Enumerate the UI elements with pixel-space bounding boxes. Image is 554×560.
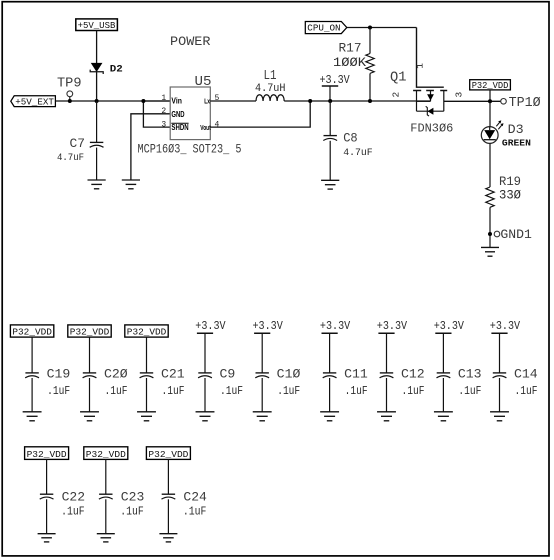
power symbol +3.3V — [197, 332, 213, 334]
svg-text:.1uF: .1uF — [220, 384, 243, 398]
svg-text:+5V_EXT: +5V_EXT — [15, 96, 54, 107]
wire +5V rail — [55, 100, 170, 102]
wire — [31, 337, 33, 373]
svg-text:4.7uH: 4.7uH — [255, 83, 286, 95]
capacitor C23 — [99, 494, 113, 499]
power port P32_VDD — [84, 447, 128, 460]
transistor Q1 body arrow — [427, 91, 434, 102]
wire — [442, 333, 444, 373]
svg-text:.1uF: .1uF — [402, 384, 425, 398]
wire — [442, 378, 444, 412]
diode D2 (Schottky) — [90, 63, 103, 74]
capacitor C11 — [323, 373, 337, 378]
svg-text:Vout: Vout — [200, 125, 211, 132]
test point TP9 — [67, 91, 73, 101]
svg-text:+3.3V: +3.3V — [490, 320, 520, 333]
svg-text:FDN3Ø6: FDN3Ø6 — [410, 122, 453, 136]
svg-text:+3.3V: +3.3V — [320, 320, 350, 333]
svg-text:.1uF: .1uF — [105, 384, 128, 398]
junction — [95, 99, 99, 103]
svg-text:C11: C11 — [344, 368, 368, 382]
power port P32_VDD — [25, 447, 69, 460]
svg-text:Lx: Lx — [204, 97, 210, 106]
wire — [347, 27, 417, 29]
svg-text:C19: C19 — [47, 368, 71, 382]
inductor L1 — [256, 95, 284, 101]
svg-text:2: 2 — [161, 107, 166, 116]
wire — [105, 499, 107, 533]
test point TP10 — [501, 99, 507, 105]
svg-text:C2Ø: C2Ø — [104, 368, 128, 382]
wire — [105, 459, 107, 494]
junction — [308, 99, 312, 103]
capacitor C12 — [380, 373, 394, 378]
regulator U5 body — [170, 87, 210, 140]
wire — [499, 333, 501, 373]
svg-text:C1Ø: C1Ø — [277, 368, 301, 382]
ground — [122, 180, 140, 189]
junction — [68, 99, 72, 103]
junction — [488, 232, 492, 236]
junction — [368, 99, 372, 103]
junction — [488, 99, 492, 103]
svg-text:P32_VDD: P32_VDD — [148, 449, 188, 460]
power port P32_VDD — [146, 447, 190, 460]
svg-text:P32_VDD: P32_VDD — [472, 80, 509, 91]
ground — [320, 412, 339, 421]
ground — [490, 412, 509, 421]
net flag CPU_ON — [305, 22, 347, 34]
wire — [261, 333, 263, 373]
svg-text:33Ø: 33Ø — [499, 189, 521, 203]
transistor Q1 gate — [417, 28, 444, 88]
svg-text:SHDN: SHDN — [171, 123, 188, 132]
ground — [88, 180, 106, 189]
transistor Q1 body diode — [417, 106, 444, 116]
wire — [46, 459, 48, 494]
capacitor C20 — [83, 373, 97, 378]
capacitor C9 — [198, 373, 212, 378]
svg-text:GREEN: GREEN — [502, 138, 531, 149]
power flag +5V_EXT — [11, 96, 56, 108]
svg-text:C21: C21 — [161, 368, 185, 382]
power symbol +3.3V — [322, 332, 338, 334]
svg-text:TP1Ø: TP1Ø — [509, 95, 541, 111]
power symbol +3.3V — [435, 332, 451, 334]
capacitor C22 — [40, 494, 54, 499]
ground — [253, 412, 272, 421]
svg-text:3: 3 — [454, 91, 465, 97]
svg-text:1: 1 — [161, 94, 166, 103]
ground — [196, 412, 215, 421]
svg-text:4: 4 — [215, 121, 220, 130]
wire — [386, 378, 388, 412]
ground — [321, 180, 339, 189]
svg-text:+3.3V: +3.3V — [320, 74, 350, 87]
transistor Q1 channel — [413, 90, 447, 92]
svg-text:C24: C24 — [183, 491, 207, 505]
wire — [210, 101, 310, 127]
svg-text:C23: C23 — [121, 491, 145, 505]
svg-text:D2: D2 — [110, 65, 123, 76]
svg-text:4.7uF: 4.7uF — [57, 152, 84, 164]
capacitor C7 — [90, 101, 104, 180]
svg-text:+3.3V: +3.3V — [377, 320, 407, 333]
capacitor C24 — [162, 494, 176, 499]
svg-text:P32_VDD: P32_VDD — [12, 327, 52, 338]
capacitor C14 — [493, 373, 507, 378]
wire — [210, 100, 256, 102]
svg-text:L1: L1 — [264, 69, 277, 84]
test point GND1 — [494, 231, 500, 237]
svg-text:MCP16Ø3_ SOT23_ 5: MCP16Ø3_ SOT23_ 5 — [138, 143, 242, 157]
wire output rail — [284, 100, 430, 102]
svg-text:.1uF: .1uF — [345, 384, 368, 398]
wire — [143, 100, 170, 102]
svg-text:GND: GND — [171, 110, 184, 119]
wire — [329, 333, 331, 373]
wire — [499, 378, 501, 412]
svg-text:C8: C8 — [343, 131, 358, 145]
svg-text:.1uF: .1uF — [277, 384, 300, 398]
power symbol +3.3V — [322, 86, 338, 101]
svg-text:C13: C13 — [458, 368, 482, 382]
svg-text:P32_VDD: P32_VDD — [86, 449, 126, 460]
svg-text:R17: R17 — [339, 42, 362, 56]
svg-text:.1uF: .1uF — [47, 384, 70, 398]
wire — [489, 101, 491, 126]
wire — [131, 114, 170, 180]
pin label SHDN — [171, 123, 188, 132]
svg-text:+3.3V: +3.3V — [195, 320, 225, 333]
wire — [167, 499, 169, 533]
wire — [204, 333, 206, 373]
wire drain — [444, 100, 501, 102]
svg-text:.1uF: .1uF — [515, 384, 538, 398]
svg-text:Vin: Vin — [171, 97, 182, 106]
junction — [328, 99, 332, 103]
power symbol +3.3V — [491, 332, 507, 334]
svg-text:P32_VDD: P32_VDD — [27, 449, 67, 460]
wire — [146, 378, 148, 412]
capacitor C13 — [437, 373, 451, 378]
ground — [80, 412, 99, 421]
wire — [146, 337, 148, 373]
svg-text:1ØØK: 1ØØK — [333, 56, 367, 70]
svg-text:C22: C22 — [62, 491, 86, 505]
power symbol +3.3V — [254, 332, 270, 334]
wire — [89, 378, 91, 412]
svg-text:.1uF: .1uF — [162, 384, 185, 398]
transistor Q1 source contact — [416, 91, 418, 112]
svg-text:C9: C9 — [220, 368, 236, 382]
svg-text:C14: C14 — [514, 368, 538, 382]
svg-text:POWER: POWER — [170, 34, 211, 49]
wire — [96, 72, 98, 101]
ground — [97, 534, 115, 542]
ground — [23, 412, 42, 421]
svg-text:.1uF: .1uF — [120, 505, 144, 519]
capacitor C21 — [140, 373, 154, 378]
power port +5V_USB — [76, 19, 118, 31]
wire — [204, 378, 206, 412]
svg-text:U5: U5 — [195, 75, 212, 90]
junction — [141, 99, 145, 103]
svg-text:GND1: GND1 — [500, 227, 532, 242]
svg-text:CPU_ON: CPU_ON — [307, 22, 340, 33]
svg-text:Q1: Q1 — [390, 71, 407, 86]
ground — [38, 534, 56, 542]
junction — [368, 26, 372, 30]
svg-text:2: 2 — [390, 91, 401, 97]
ground — [434, 412, 453, 421]
wire — [46, 499, 48, 533]
capacitor C8 — [323, 101, 337, 180]
transistor Q1 drain contact — [443, 91, 445, 112]
capacitor C10 — [255, 373, 269, 378]
wire — [386, 333, 388, 373]
svg-text:4.7uF: 4.7uF — [343, 147, 373, 159]
svg-text:P32_VDD: P32_VDD — [70, 327, 110, 338]
svg-text:+5V_USB: +5V_USB — [78, 20, 116, 31]
LED D3 — [481, 120, 503, 143]
wire source — [417, 100, 431, 102]
wire — [489, 143, 491, 187]
svg-text:+3.3V: +3.3V — [434, 320, 464, 333]
power symbol +3.3V — [378, 332, 394, 334]
wire — [143, 101, 170, 127]
capacitor C19 — [25, 373, 39, 378]
ground — [377, 412, 396, 421]
svg-text:3: 3 — [161, 121, 166, 130]
ground — [137, 412, 156, 421]
resistor R17 — [366, 28, 374, 102]
power port P32_VDD — [10, 325, 53, 338]
svg-text:C7: C7 — [70, 137, 86, 151]
ground — [159, 534, 177, 542]
ground — [481, 247, 499, 256]
wire — [329, 378, 331, 412]
power port P32_VDD — [125, 325, 168, 338]
svg-text:1: 1 — [414, 63, 425, 69]
svg-text:C12: C12 — [401, 368, 425, 382]
svg-text:.1uF: .1uF — [61, 505, 85, 519]
wire — [167, 459, 169, 494]
wire — [31, 378, 33, 412]
svg-text:.1uF: .1uF — [183, 505, 207, 519]
wire — [89, 337, 91, 373]
svg-text:D3: D3 — [508, 122, 524, 137]
wire — [96, 31, 98, 64]
resistor R19 — [486, 187, 494, 247]
svg-text:.1uF: .1uF — [458, 384, 481, 398]
wire — [261, 378, 263, 412]
svg-text:P32_VDD: P32_VDD — [127, 327, 167, 338]
power port P32_VDD — [68, 325, 111, 338]
svg-text:+3.3V: +3.3V — [253, 320, 283, 333]
svg-text:R19: R19 — [499, 175, 521, 189]
power port P32_VDD — [470, 80, 511, 102]
svg-text:TP9: TP9 — [57, 76, 82, 92]
